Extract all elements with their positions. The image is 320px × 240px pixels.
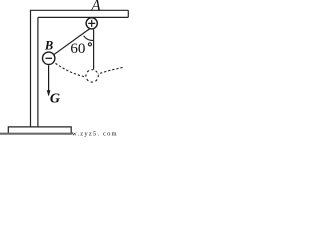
stand arm right end cap <box>127 10 129 17</box>
stand arm bottom edge <box>38 16 128 18</box>
svg-text:G: G <box>50 92 60 107</box>
charged ball at A (plus) <box>86 18 97 29</box>
weight arrow G shaft <box>48 65 50 95</box>
svg-text:60: 60 <box>70 41 85 57</box>
stand post inner edge <box>37 17 39 127</box>
stand post outer edge <box>30 10 32 127</box>
svg-text:B: B <box>44 38 53 52</box>
vertical equilibrium line <box>93 29 95 69</box>
svg-text:w.zyz5. com: w.zyz5. com <box>72 130 118 137</box>
charged ball B (minus) <box>43 52 55 64</box>
background <box>0 0 132 137</box>
dashed arc right (swing path past lowest point) <box>92 67 123 76</box>
ground line <box>0 133 73 135</box>
stand arm top edge <box>30 9 128 11</box>
degree symbol <box>88 43 91 46</box>
string from ball A to ball B <box>49 29 90 59</box>
minus sign <box>46 57 53 59</box>
svg-text:A: A <box>90 0 101 15</box>
dashed ball at lowest position <box>86 70 98 82</box>
angle arc at pivot <box>84 36 94 41</box>
weight arrow head <box>47 90 51 96</box>
dashed arc left (swing path from B to lowest point) <box>49 58 86 77</box>
stand base outline <box>8 127 71 134</box>
plus sign <box>88 20 95 27</box>
